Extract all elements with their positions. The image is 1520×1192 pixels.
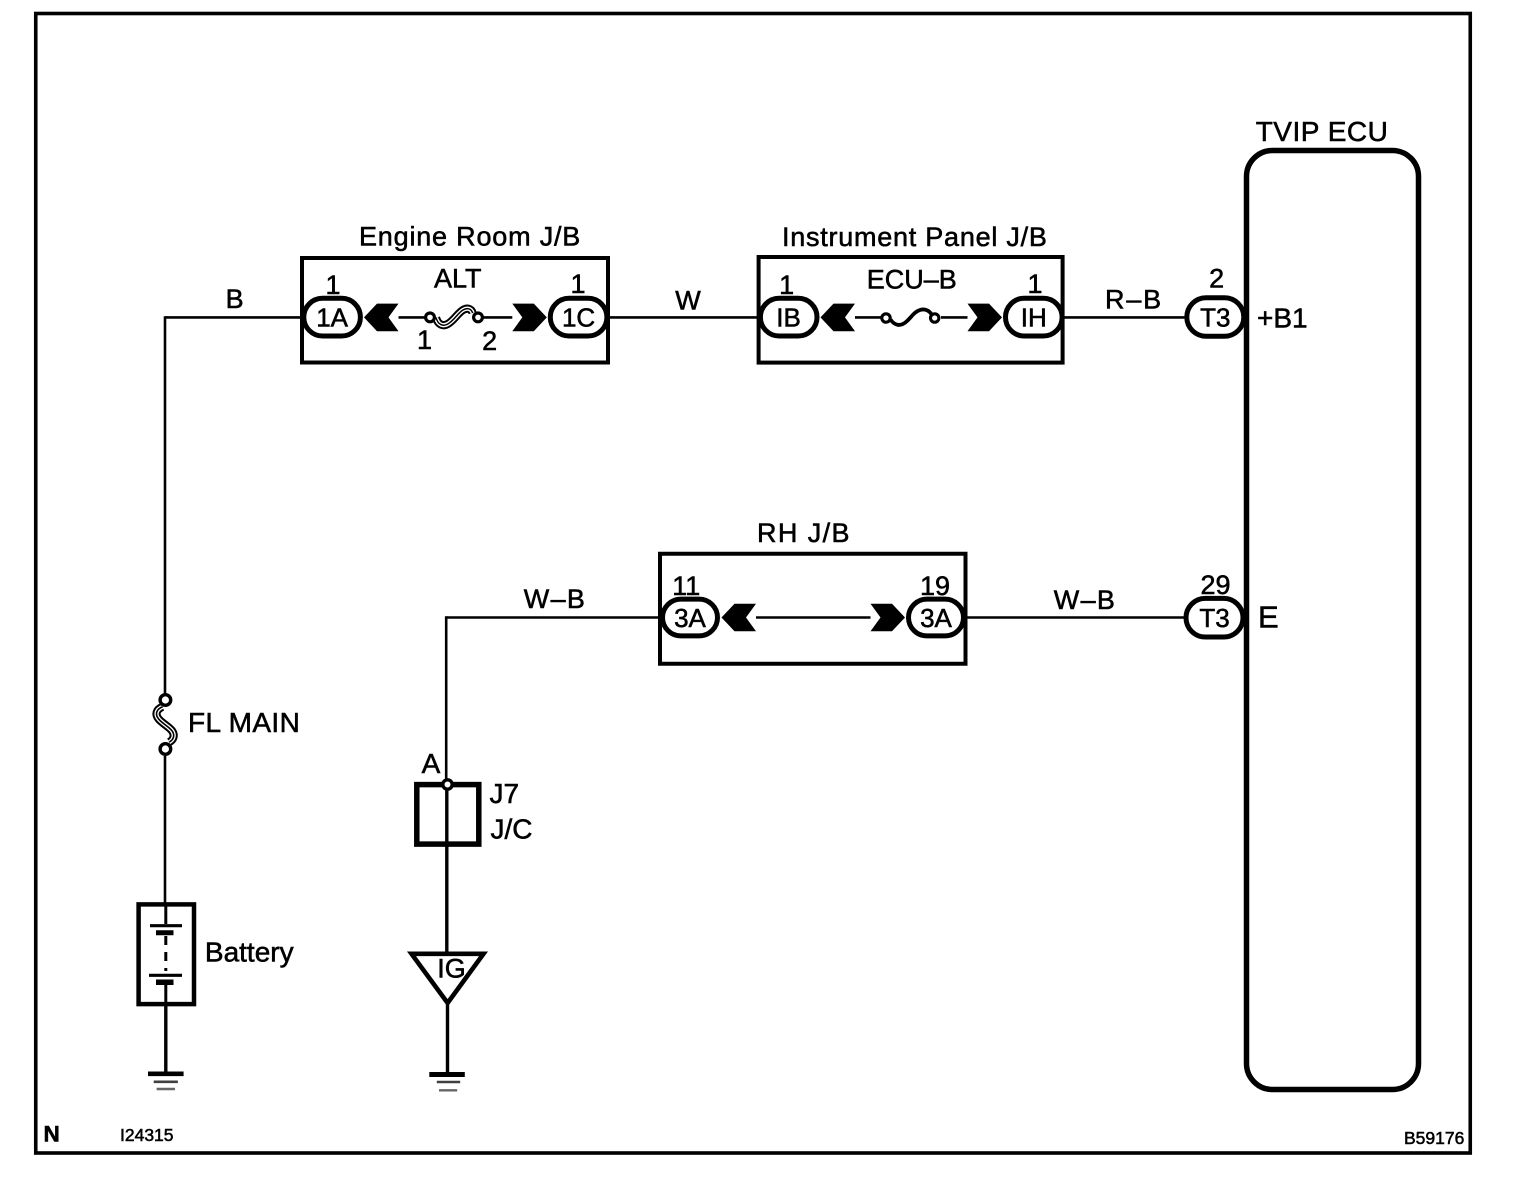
svg-text:ALT: ALT <box>434 264 482 294</box>
svg-text:29: 29 <box>1200 570 1230 600</box>
svg-text:Instrument Panel J/B: Instrument Panel J/B <box>782 222 1048 252</box>
svg-text:1: 1 <box>779 270 794 300</box>
svg-text:B59176: B59176 <box>1404 1128 1464 1148</box>
svg-text:2: 2 <box>1209 264 1224 294</box>
svg-text:11: 11 <box>672 571 700 601</box>
svg-text:1: 1 <box>570 269 585 299</box>
svg-text:1: 1 <box>1027 269 1042 299</box>
svg-text:TVIP ECU: TVIP ECU <box>1256 116 1389 147</box>
svg-text:Battery: Battery <box>205 937 294 968</box>
svg-text:A: A <box>422 748 441 779</box>
svg-text:1A: 1A <box>316 303 348 333</box>
svg-text:ECU–B: ECU–B <box>867 265 957 295</box>
svg-text:+B1: +B1 <box>1257 303 1308 334</box>
svg-text:1C: 1C <box>562 303 595 333</box>
svg-text:W: W <box>675 286 701 316</box>
svg-text:2: 2 <box>482 326 497 356</box>
svg-text:IB: IB <box>776 303 801 333</box>
svg-text:1: 1 <box>325 270 340 300</box>
svg-text:I24315: I24315 <box>120 1125 174 1145</box>
svg-text:W–B: W–B <box>1054 585 1116 615</box>
svg-text:J7: J7 <box>490 778 520 809</box>
svg-text:J/C: J/C <box>491 814 533 845</box>
svg-text:N: N <box>44 1122 60 1147</box>
svg-text:IG: IG <box>437 954 466 984</box>
svg-text:T3: T3 <box>1200 303 1230 333</box>
svg-text:19: 19 <box>920 571 950 601</box>
svg-text:Engine Room J/B: Engine Room J/B <box>359 222 581 252</box>
svg-text:E: E <box>1258 600 1279 635</box>
svg-text:R–B: R–B <box>1105 285 1163 315</box>
svg-text:RH J/B: RH J/B <box>757 518 851 548</box>
svg-text:3A: 3A <box>920 603 952 633</box>
svg-text:3A: 3A <box>674 603 706 633</box>
svg-text:B: B <box>226 284 244 314</box>
svg-text:T3: T3 <box>1199 603 1229 633</box>
svg-text:W–B: W–B <box>524 584 586 614</box>
svg-text:FL MAIN: FL MAIN <box>188 707 300 738</box>
svg-text:IH: IH <box>1021 303 1047 333</box>
svg-text:1: 1 <box>417 325 432 355</box>
